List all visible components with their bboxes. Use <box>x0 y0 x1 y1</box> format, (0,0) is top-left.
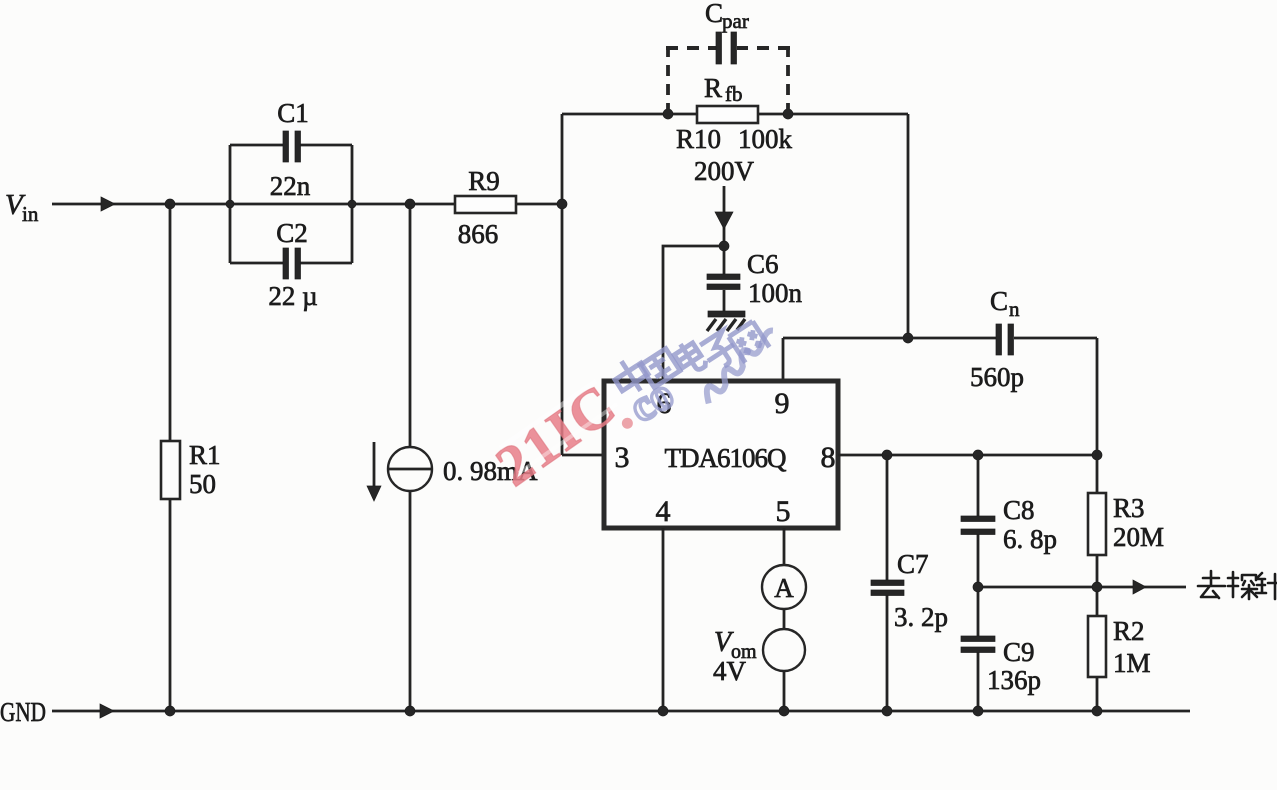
svg-text:C8: C8 <box>1003 495 1035 525</box>
wire Cpar dashed horizontal <box>666 46 717 50</box>
wire C1 top branch <box>230 144 352 147</box>
svg-text:6. 8p: 6. 8p <box>1003 524 1057 554</box>
node junction R3/Cn <box>1092 450 1102 460</box>
svg-text:GND: GND <box>0 697 46 727</box>
ground earth symbol <box>708 311 745 317</box>
node GND/R1 <box>165 706 175 716</box>
capacitor C9 <box>961 636 995 642</box>
svg-text:C: C <box>990 286 1008 316</box>
node junction probe/R2 <box>1092 582 1102 592</box>
current source 0.98mA <box>388 447 432 491</box>
svg-text:22 µ: 22 µ <box>268 281 317 311</box>
wire C6 left branch <box>663 246 724 381</box>
svg-text:R9: R9 <box>468 166 500 196</box>
wire Cpar dashed left vertical <box>666 46 670 114</box>
node dashed right junction <box>783 109 793 119</box>
label qu tanzhen (to probe) <box>1198 571 1277 599</box>
arrow current direction <box>373 442 376 488</box>
svg-text:8: 8 <box>821 441 836 474</box>
wire Cn line <box>783 337 1097 340</box>
arrow Vin direction <box>101 197 115 211</box>
wire R1 branch vertical <box>169 204 172 711</box>
resistor R3 <box>1088 493 1106 555</box>
supply 200V arrow <box>723 186 726 246</box>
svg-text:1M: 1M <box>1113 648 1151 678</box>
wire probe line <box>978 586 1186 589</box>
source Vom <box>763 629 805 671</box>
wire pin3 stub <box>562 454 604 457</box>
wire C1C2 box right edge <box>351 145 354 263</box>
node GND/C9 <box>973 706 983 716</box>
node junction C8 <box>973 450 983 460</box>
resistor R1 <box>161 441 180 499</box>
svg-text:4V: 4V <box>713 656 747 686</box>
svg-text:3. 2p: 3. 2p <box>894 602 948 632</box>
wire feedback right vertical <box>907 114 910 338</box>
svg-text:R10: R10 <box>676 124 721 154</box>
svg-text:n: n <box>1009 297 1020 321</box>
node GND/R2 <box>1092 706 1102 716</box>
svg-text:C6: C6 <box>747 249 779 279</box>
node junction probe/C9 <box>973 582 983 592</box>
wire C1C2 box left edge <box>229 145 232 263</box>
svg-text:C7: C7 <box>897 549 929 579</box>
arrow GND <box>100 704 114 718</box>
svg-text:50: 50 <box>189 469 216 499</box>
capacitor C6 <box>707 274 740 280</box>
svg-text:9: 9 <box>775 387 790 420</box>
svg-text:A: A <box>774 573 794 603</box>
IC U1 TDA6106Q <box>604 381 838 528</box>
watermark white lattice stripes <box>500 381 596 448</box>
svg-text:in: in <box>22 202 39 226</box>
node box left <box>226 200 234 208</box>
wire Cpar dashed right vertical <box>786 46 790 114</box>
node GND/Vom <box>779 706 789 716</box>
svg-text:136p: 136p <box>987 665 1041 695</box>
resistor R9 <box>455 196 516 213</box>
svg-text:20M: 20M <box>1113 522 1164 552</box>
watermark .com blue script <box>621 309 788 438</box>
node junction C6 top <box>719 241 729 251</box>
capacitor C7 <box>871 580 904 586</box>
wire between meters <box>783 609 786 629</box>
wire C6 to ground <box>723 290 726 312</box>
wire pin4 down <box>662 528 665 711</box>
wire Vom bottom <box>783 671 786 711</box>
svg-text:R2: R2 <box>1113 616 1145 646</box>
svg-text:200V: 200V <box>694 156 755 186</box>
wire C6 down <box>723 246 726 275</box>
svg-text:3: 3 <box>615 441 630 474</box>
resistor R2 <box>1088 616 1106 677</box>
node GND/current source <box>405 706 415 716</box>
node junction C7 <box>882 450 892 460</box>
node box right <box>348 200 356 208</box>
wire C7 branch <box>886 455 889 711</box>
ammeter A <box>762 565 806 609</box>
svg-text:C: C <box>705 0 723 28</box>
node junction current source <box>405 199 415 209</box>
wire pin9 stub <box>782 338 785 381</box>
svg-text:22n: 22n <box>270 171 311 201</box>
wire C2 bottom branch <box>230 262 352 265</box>
node dashed left junction <box>663 109 673 119</box>
svg-text:C1: C1 <box>277 98 309 128</box>
wire Cn right vertical <box>1096 338 1099 455</box>
capacitor Cn <box>996 324 1002 355</box>
wire current source bottom <box>409 491 412 711</box>
svg-text:560p: 560p <box>970 362 1024 392</box>
svg-text:TDA6106Q: TDA6106Q <box>665 443 787 473</box>
node GND/C7 <box>882 706 892 716</box>
wire GND line <box>52 710 1190 713</box>
node junction R9/vertical <box>557 199 567 209</box>
svg-text:100k: 100k <box>738 124 793 154</box>
node GND/pin4 <box>658 706 668 716</box>
wire feedback left vertical <box>561 114 564 455</box>
svg-text:R: R <box>704 73 722 103</box>
wire R3/R2 branch <box>1096 455 1099 711</box>
watermark 21IC.com + chinese <box>484 309 788 502</box>
wire pin8 line <box>838 454 1097 457</box>
capacitor C2 <box>283 248 289 279</box>
svg-text:par: par <box>722 9 749 33</box>
svg-text:R3: R3 <box>1113 493 1145 523</box>
wire C8/C9 branch <box>977 455 980 711</box>
svg-text:100n: 100n <box>748 278 803 308</box>
capacitor Cpar <box>716 32 722 64</box>
svg-text:866: 866 <box>458 219 499 249</box>
resistor Rfb R10 <box>697 106 758 123</box>
node junction Cn line <box>903 333 913 343</box>
wire pin5 down <box>783 528 786 565</box>
capacitor C8 <box>961 516 995 522</box>
svg-text:C9: C9 <box>1003 637 1035 667</box>
watermark chinese chars <box>608 321 769 399</box>
svg-text:C2: C2 <box>276 218 308 248</box>
svg-text:4: 4 <box>656 495 671 528</box>
wire Vin input line <box>52 203 562 206</box>
wire current source branch top <box>409 204 412 447</box>
svg-text:fb: fb <box>725 82 743 106</box>
arrow probe <box>1133 580 1146 594</box>
wire feedback top line <box>562 113 908 116</box>
svg-text:5: 5 <box>776 495 791 528</box>
node junction Vin/R1 <box>165 199 175 209</box>
svg-text:R1: R1 <box>189 440 221 470</box>
capacitor C1 <box>283 131 289 162</box>
